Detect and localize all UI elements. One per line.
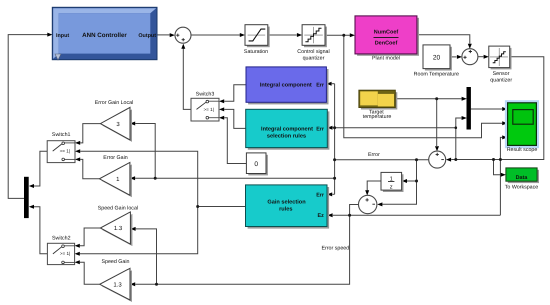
svg-text:NumCoef: NumCoef: [374, 30, 399, 36]
svg-text:Speed Gain local: Speed Gain local: [98, 205, 138, 211]
svg-text:Gain selection: Gain selection: [267, 198, 306, 205]
svg-text:Plant model: Plant model: [372, 55, 400, 61]
svg-text:Speed Gain: Speed Gain: [102, 259, 130, 265]
svg-text:quantizer: quantizer: [303, 56, 325, 62]
svg-text:DenCoef: DenCoef: [375, 41, 398, 47]
svg-text:Saturation: Saturation: [244, 49, 268, 55]
svg-text:Err: Err: [316, 83, 325, 89]
svg-text:20: 20: [433, 54, 441, 61]
svg-text:Integral component: Integral component: [261, 125, 313, 132]
svg-text:Error Gain Local: Error Gain Local: [95, 100, 134, 106]
svg-text:>= 1|: >= 1|: [60, 149, 70, 154]
svg-text:To Workspace: To Workspace: [505, 185, 539, 191]
svg-text:temperature: temperature: [363, 114, 392, 120]
svg-text:Switch1: Switch1: [52, 132, 71, 138]
svg-text:rules: rules: [279, 206, 292, 213]
svg-text:Data: Data: [516, 175, 529, 181]
svg-text:Err: Err: [316, 192, 325, 198]
svg-text:Control signal: Control signal: [297, 49, 329, 55]
svg-text:z: z: [390, 185, 393, 191]
svg-text:Error speed: Error speed: [322, 245, 350, 251]
svg-text:Room Temperature: Room Temperature: [414, 71, 459, 77]
svg-text:Sensor: Sensor: [493, 71, 510, 77]
svg-text:Switch3: Switch3: [196, 91, 215, 97]
svg-text:>= 1|: >= 1|: [204, 107, 214, 112]
svg-text:Result scope: Result scope: [507, 147, 538, 153]
svg-text:selection rules: selection rules: [267, 133, 306, 140]
svg-text:quantizer: quantizer: [490, 78, 512, 84]
svg-text:>= 1|: >= 1|: [60, 251, 70, 256]
svg-text:1.3: 1.3: [114, 225, 123, 232]
svg-text:Input: Input: [56, 33, 69, 39]
svg-text:Error Gain: Error Gain: [103, 155, 127, 161]
svg-text:ANN Controller: ANN Controller: [82, 32, 127, 39]
svg-text:Switch2: Switch2: [52, 236, 71, 242]
svg-text:Integral component: Integral component: [260, 82, 312, 89]
svg-text:Error: Error: [368, 152, 380, 158]
svg-text:1.3: 1.3: [113, 282, 122, 289]
svg-text:Err: Err: [316, 127, 325, 133]
svg-text:0: 0: [254, 161, 258, 168]
svg-text:Ez: Ez: [318, 213, 325, 219]
svg-text:Output: Output: [138, 33, 156, 39]
